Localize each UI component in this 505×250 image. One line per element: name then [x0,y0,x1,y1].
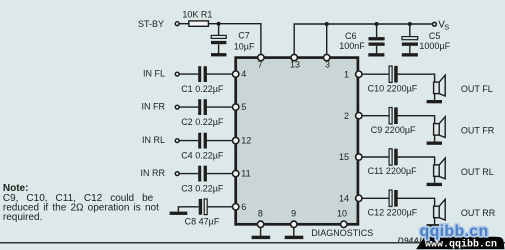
ground below speaker FL [427,94,442,104]
svg-text:5: 5 [241,102,246,112]
capacitor C8 [199,199,208,215]
pin 10 [337,209,347,228]
label C8 47uF [185,216,220,226]
wire pin 15 to C11 [359,156,389,158]
pin 15 [339,152,362,162]
label OUT FR [461,126,495,136]
wire IN RL to C4 [180,140,199,142]
svg-text:6: 6 [241,202,246,212]
wire pin 3 riser [326,24,328,58]
svg-text:IN FL: IN FL [143,69,165,79]
svg-text:S: S [444,22,449,31]
speaker OUT RL [434,158,446,179]
ground below speaker RR [427,218,442,228]
svg-text:7: 7 [258,60,263,70]
wire pin 1 to C10 [359,73,389,75]
pin 1 [344,69,362,79]
bottom frame line [0,242,505,244]
svg-text:C7: C7 [238,31,250,41]
watermark qqibb.cn glow text [420,223,489,240]
terminal IN FR [175,105,179,109]
wire ST-BY input to R1 [180,23,190,25]
terminal Vs [433,22,437,26]
wire C11 to speaker RL [398,157,435,165]
speaker OUT FL [434,75,446,96]
capacitor C4 [198,133,207,149]
capacitor C12 [389,190,398,207]
label OUT RL [461,167,494,177]
svg-text:100nF: 100nF [339,41,365,51]
capacitor C10 [389,66,398,83]
wire supply rail Vs [294,24,432,58]
note text block [3,183,159,223]
ground below speaker FR [427,135,442,145]
terminal IN RL [175,139,179,143]
svg-text:required.: required. [3,212,42,223]
svg-text:C10 2200µF: C10 2200µF [368,84,418,94]
node rail/C5 [408,22,412,26]
wire IN RR to C3 [180,173,199,175]
wire IN FR to C2 [180,106,199,108]
label ST-BY [138,19,164,29]
wire C10 to speaker FL [398,74,435,82]
figure reference D94AU [398,236,440,246]
resistor R1 [189,21,209,26]
label C5 1000uF [419,31,450,51]
watermark www.qqibb.cn black box [416,237,505,250]
pin 13 [290,54,300,69]
node junction R1/C7 [217,22,221,26]
wire pin 2 to C9 [359,115,389,117]
svg-text:C12 2200µF: C12 2200µF [368,208,418,218]
svg-text:qqibb.cn: qqibb.cn [420,223,489,240]
terminal IN FL [175,72,179,76]
node rail/C6 [375,22,379,26]
watermark www.qqibb.cn white text [425,238,497,250]
label Vs [438,20,449,32]
svg-text:C2 0.22µF: C2 0.22µF [181,117,224,127]
svg-text:IN RL: IN RL [142,135,165,145]
svg-text:11: 11 [241,169,250,179]
wire C12 to speaker RR [398,198,435,206]
capacitor C5 [402,24,418,53]
svg-text:1000µF: 1000µF [419,41,450,51]
label IN RR [141,168,166,178]
label C10 2200uF [368,84,418,94]
svg-text:3: 3 [325,60,330,70]
label 10K R1 [182,9,212,19]
svg-text:1: 1 [344,69,349,79]
label C3 0.22uF [181,183,224,193]
pin 8 [257,209,263,228]
svg-text:10µF: 10µF [234,41,255,51]
pin 4 [233,69,247,79]
svg-text:12: 12 [241,136,251,146]
svg-text:15: 15 [339,152,349,162]
label OUT RR [461,208,496,218]
terminal ST-BY [175,22,179,26]
svg-text:C11 2200µF: C11 2200µF [368,166,418,176]
speaker OUT FR [434,117,446,138]
svg-text:C8 47µF: C8 47µF [185,216,220,226]
svg-text:IN RR: IN RR [141,168,166,178]
pin 7 [258,54,264,69]
label C6 100nF [339,31,365,51]
ground below C6 [368,53,384,56]
op-amp U1 (quad power amplifier IC body) [236,58,358,225]
svg-text:OUT RL: OUT RL [461,167,494,177]
label C7 10uF [234,31,255,52]
pin 3 [324,54,331,69]
svg-text:4: 4 [241,69,246,79]
terminal IN RR [175,172,179,176]
svg-text:C4 0.22µF: C4 0.22µF [181,150,224,160]
wire C4 to pin 12 [207,140,236,142]
label C11 2200uF [368,166,418,176]
pin 9 [291,209,297,228]
svg-text:IN FR: IN FR [142,102,166,112]
label DIAGNOSTICS [311,228,373,238]
label C2 0.22uF [181,117,224,127]
label OUT FL [461,84,493,94]
wire C2 to pin 5 [207,106,236,108]
pin 11 [233,169,251,179]
capacitor C2 [198,99,207,115]
capacitor C9 [389,107,398,124]
label C12 2200uF [368,208,418,218]
svg-text:C6: C6 [345,31,357,41]
svg-text:ST-BY: ST-BY [138,19,164,29]
label IN RL [142,135,165,145]
svg-text:9: 9 [291,209,296,219]
svg-text:C1 0.22µF: C1 0.22µF [181,84,224,94]
label IN FL [143,69,165,79]
pin 12 [233,136,252,146]
svg-text:10K R1: 10K R1 [182,9,212,19]
capacitor C7 [211,24,226,54]
svg-text:C3 0.22µF: C3 0.22µF [181,183,224,193]
svg-text:www.qqibb.cn: www.qqibb.cn [425,238,497,250]
label C9 2200uF [371,125,416,135]
wire C3 to pin 11 [207,173,236,175]
pin 6 [233,202,247,212]
ground below C5 [402,53,418,56]
capacitor C11 [389,149,398,166]
label C4 0.22uF [181,150,224,160]
pin 14 [339,193,362,203]
svg-text:14: 14 [339,193,349,203]
svg-text:OUT FL: OUT FL [461,84,493,94]
svg-text:2: 2 [344,111,349,121]
capacitor C6 [369,24,385,53]
wire C8 to pin 6 [207,206,235,208]
svg-text:C5: C5 [429,31,441,41]
capacitor C3 [198,166,207,182]
svg-text:OUT FR: OUT FR [461,126,495,136]
svg-text:OUT RR: OUT RR [461,208,496,218]
label IN FR [142,102,166,112]
wire R1 to pin 7 riser [208,24,261,58]
ground left of C8 [170,207,199,215]
svg-text:C9 2200µF: C9 2200µF [371,125,416,135]
ground below pin 9 [285,224,304,239]
wire C1 to pin 4 [207,73,236,75]
node rail/pin3 [325,22,329,26]
wire C9 to speaker FR [398,116,435,124]
svg-text:13: 13 [290,60,300,70]
svg-text:10: 10 [337,209,347,219]
wire pin 14 to C12 [359,197,389,199]
pin 5 [233,102,247,112]
svg-text:8: 8 [258,209,263,219]
ground below pin 8 [252,224,271,239]
capacitor C1 [198,66,207,82]
ground below C7 [211,53,226,56]
ground below speaker RL [427,176,442,186]
pin 2 [344,111,362,121]
svg-text:DIAGNOSTICS: DIAGNOSTICS [311,228,373,238]
wire IN FL to C1 [180,73,199,75]
label C1 0.22uF [181,84,224,94]
speaker OUT RR [434,199,446,220]
